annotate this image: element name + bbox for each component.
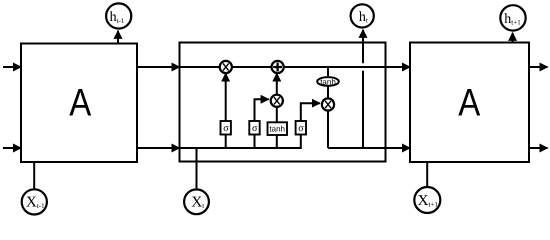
wire cell-state top inside LSTM [180, 66, 386, 68]
svg-text:σ: σ [223, 123, 229, 134]
wire forget gate up: sigma1 to multiply [225, 73, 227, 148]
node h(t+1) [500, 5, 525, 30]
wire h(t) arrow upper segment [362, 30, 364, 63]
svg-text:tanh: tanh [320, 77, 336, 86]
op multiply2 (input) circle [271, 95, 283, 107]
gate sigma1 box [221, 121, 231, 135]
wire multiply2 up into add [276, 73, 278, 93]
wire cell-state top: LSTM to A(t+1) [386, 66, 411, 68]
wire hidden bottom: A(t-1) to LSTM [137, 147, 180, 149]
svg-text:σ: σ [252, 123, 258, 134]
wire output top-right [529, 66, 548, 68]
wire tanh ellipse down into multiply3 [327, 87, 329, 99]
wire X(t) up into LSTM [196, 148, 198, 188]
op add circle [272, 61, 284, 73]
wire cell-state top: A(t-1) to LSTM [137, 66, 180, 68]
node X(t) [184, 189, 209, 214]
wire candidate: tanh box up into multiply2 [276, 108, 278, 148]
wire input top-left [3, 66, 21, 68]
svg-text:tanh: tanh [269, 125, 285, 134]
wire input bottom-left [3, 147, 21, 149]
node h(t-1) [106, 3, 131, 28]
cell LSTM (t) box [180, 43, 386, 162]
gate tanh box [268, 122, 288, 135]
wire cell-state tap down into tanh ellipse [327, 67, 329, 76]
op multiply3 (output) circle [322, 98, 334, 110]
wire output bottom-right [529, 147, 548, 149]
svg-text:σ: σ [298, 123, 304, 134]
wire hidden output segment to A(t+1) [328, 147, 410, 149]
wire output gate: sigma3 up and right into multiply3 [301, 103, 320, 110]
add plus sign [273, 63, 282, 72]
cell A (t-1) box [21, 44, 137, 163]
wire hidden bottom inside LSTM (input segment) [180, 111, 301, 149]
wire X(t-1) up into A(t-1) [33, 162, 35, 189]
op tanh ellipse [317, 77, 339, 86]
wire h(t-1) arrow up [117, 31, 119, 44]
wire X(t+1) up into A(t+1) [426, 162, 428, 186]
op multiply (forget) circle [220, 61, 232, 73]
wire h(t) up lower segment [362, 71, 364, 148]
node h(t) [351, 4, 374, 27]
wire multiply3 down to hidden line [327, 111, 329, 148]
wire input gate: sigma2 up and right into multiply2 [255, 99, 269, 148]
wire h(t+1) arrow up [512, 33, 514, 43]
gate sigma3 box [296, 121, 306, 135]
gate sigma2 box [249, 121, 259, 135]
svg-text:A: A [458, 82, 480, 125]
cell A (t+1) box [410, 43, 529, 163]
svg-text:A: A [69, 82, 91, 125]
node X(t-1) [22, 189, 47, 214]
node X(t+1) [414, 187, 440, 213]
